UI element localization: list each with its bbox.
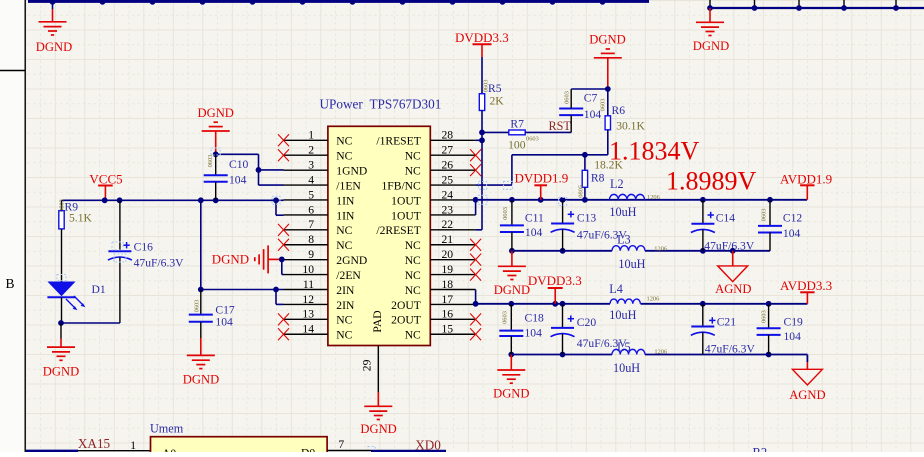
- svg-text:16: 16: [442, 308, 454, 321]
- junction R7 tee: [479, 130, 485, 136]
- svg-text:C18: C18: [525, 312, 545, 325]
- capacitor C7: [559, 91, 601, 121]
- resistor R5: [479, 80, 504, 111]
- svg-text:29: 29: [361, 359, 374, 371]
- svg-text:D0: D0: [301, 447, 315, 453]
- capacitor C21 (polarized): [691, 304, 756, 356]
- wire to pin3 1GND: [259, 169, 284, 171]
- svg-text:30.1K: 30.1K: [616, 120, 645, 133]
- svg-text:10uH: 10uH: [609, 308, 636, 322]
- svg-text:C10: C10: [229, 158, 249, 171]
- svg-text:19: 19: [442, 263, 454, 276]
- net label RST: [549, 119, 572, 133]
- svg-text:AGND: AGND: [715, 282, 751, 296]
- svg-text:DGND: DGND: [212, 253, 249, 267]
- annotation 1.1834V: [609, 137, 700, 166]
- svg-text:/2EN: /2EN: [336, 269, 361, 282]
- wire pin23 riser: [475, 200, 477, 215]
- junction FB node: [582, 152, 588, 158]
- junction rail4 C18: [508, 352, 514, 358]
- wire C10 bottom lead: [215, 182, 217, 201]
- op-amp U1 TPS767D301 body: [328, 126, 430, 345]
- svg-text:100: 100: [508, 139, 526, 152]
- svg-text:B: B: [6, 276, 15, 291]
- junction C16 branch: [117, 197, 123, 203]
- svg-text:10: 10: [302, 263, 314, 276]
- svg-text:25: 25: [442, 173, 454, 186]
- capacitor C12: [758, 200, 802, 251]
- junction rail3 C21: [700, 301, 706, 307]
- junction rail3 C18: [508, 301, 514, 307]
- wire pad ground stem: [377, 392, 379, 406]
- wire C17 top lead: [200, 290, 202, 315]
- capacitor C20 (polarized): [551, 304, 628, 355]
- power port AVDD3.3: [780, 278, 832, 304]
- svg-text:C7: C7: [584, 91, 598, 104]
- svg-text:11: 11: [303, 278, 314, 291]
- svg-text:NC: NC: [336, 239, 352, 252]
- svg-text:UPower: UPower: [320, 97, 364, 112]
- pin numbers U1 right: [442, 129, 454, 336]
- pin label A0: [162, 447, 176, 457]
- pin numbers U1 left: [302, 129, 314, 336]
- svg-text:18: 18: [442, 278, 454, 291]
- junctions on top bus: [50, 0, 606, 5]
- junction rail3 C19: [766, 301, 772, 307]
- junction 2IN branch: [273, 287, 279, 293]
- junction rail1 R8: [582, 197, 588, 203]
- inductor L2: [609, 177, 659, 219]
- no-connect X marks right pins: [470, 149, 481, 340]
- junction rail1 C14: [700, 197, 706, 203]
- svg-text:NC: NC: [405, 239, 421, 252]
- svg-text:C12: C12: [783, 212, 803, 225]
- svg-text:NC: NC: [336, 329, 352, 342]
- svg-text:NC: NC: [336, 314, 352, 327]
- svg-text:C13: C13: [577, 212, 597, 225]
- wire C16 bottom lead: [61, 257, 120, 323]
- svg-text:21: 21: [442, 233, 454, 246]
- junction 1GND branch: [256, 167, 262, 173]
- svg-text:AVDD1.9: AVDD1.9: [780, 171, 832, 186]
- svg-text:NC: NC: [336, 135, 352, 148]
- svg-text:/1EN: /1EN: [336, 179, 361, 192]
- net label DGND at 2GND (left ground glyph): [212, 245, 282, 273]
- svg-text:C14: C14: [716, 212, 736, 225]
- capacitor C14 (polarized): [691, 200, 755, 253]
- wire R8 bottom lead: [584, 187, 586, 200]
- svg-text:0603: 0603: [194, 300, 201, 313]
- junction rail4 C20: [560, 352, 566, 358]
- junction 1IN branch: [273, 197, 279, 203]
- wire DVDD3.3 rail: [476, 303, 808, 305]
- svg-text:14: 14: [302, 323, 314, 336]
- svg-text:AVDD3.3: AVDD3.3: [780, 278, 832, 293]
- wire C7 bottom lead: [570, 115, 572, 132]
- pin label D0: [301, 447, 315, 457]
- svg-text:L2: L2: [610, 177, 624, 191]
- svg-text:DGND: DGND: [494, 283, 530, 297]
- svg-text:C16: C16: [134, 240, 154, 253]
- svg-text:0603: 0603: [502, 207, 509, 220]
- ground DGND under U1 pad: [360, 406, 396, 436]
- resistor R7: [508, 118, 539, 152]
- svg-text:2: 2: [308, 144, 314, 157]
- svg-text:10uH: 10uH: [618, 257, 645, 271]
- svg-text:L3: L3: [617, 232, 631, 246]
- wire C17 column: [200, 200, 202, 289]
- ground DGND above R6 (inverted): [589, 33, 625, 89]
- svg-text:A0: A0: [162, 447, 176, 452]
- svg-text:0603: 0603: [600, 99, 607, 112]
- wire FB to pin25: [476, 155, 585, 185]
- capacitor C13 (polarized): [551, 200, 628, 251]
- wire R5 to node: [481, 111, 483, 141]
- svg-text:R6: R6: [612, 104, 626, 117]
- pin label PAD: [371, 310, 384, 332]
- ERC markers (light blue): [57, 148, 567, 453]
- svg-text:C11: C11: [525, 212, 544, 225]
- svg-text:1IN: 1IN: [336, 209, 355, 222]
- memory IC Umem body: [151, 437, 328, 455]
- IC designator Umem: [150, 422, 184, 436]
- svg-text:/1RESET: /1RESET: [376, 135, 420, 148]
- svg-text:9: 9: [308, 248, 314, 261]
- resistor R8: [577, 155, 623, 198]
- svg-text:0603: 0603: [760, 310, 767, 323]
- junction rail4 C19: [766, 352, 772, 358]
- svg-text:1: 1: [130, 439, 136, 452]
- svg-text:1206: 1206: [654, 348, 667, 355]
- svg-text:3: 3: [308, 159, 314, 172]
- svg-text:R5: R5: [488, 82, 502, 95]
- junctions on top-right bus: [707, 5, 899, 11]
- svg-text:104: 104: [215, 316, 233, 329]
- svg-text:10uH: 10uH: [613, 361, 640, 375]
- svg-text:1FB/NC: 1FB/NC: [381, 179, 421, 192]
- pin labels U1 left: [336, 135, 367, 342]
- junction VCC5-stem: [102, 197, 108, 203]
- wire node to pin28: [476, 139, 482, 141]
- power port DVDD3.3 lower: [528, 273, 582, 304]
- power port AVDD1.9: [780, 171, 832, 200]
- inductor L3: [612, 232, 667, 271]
- wire DGND to 1GND: [216, 154, 259, 170]
- svg-text:1IN: 1IN: [336, 194, 355, 207]
- capacitor C17: [189, 300, 235, 329]
- junction rail2 C11: [509, 248, 515, 254]
- svg-text:XA15: XA15: [78, 436, 111, 451]
- capacitor C10: [204, 155, 249, 187]
- ground AGND upper: [715, 251, 751, 296]
- svg-text:L5: L5: [617, 340, 631, 354]
- junction rail1 DVDD1.9 stem: [538, 197, 544, 203]
- svg-text:DGND: DGND: [589, 33, 625, 47]
- svg-text:DVDD3.3: DVDD3.3: [455, 30, 509, 45]
- svg-text:DVDD1.9: DVDD1.9: [515, 170, 569, 185]
- pins U1 left stubs: [284, 140, 328, 334]
- svg-text:0603: 0603: [563, 91, 570, 104]
- svg-text:28: 28: [442, 129, 454, 142]
- svg-text:R8: R8: [591, 171, 605, 184]
- svg-text:1206: 1206: [654, 245, 667, 252]
- wire stem to DGND top-right: [709, 8, 711, 22]
- svg-text:0805: 0805: [577, 185, 584, 198]
- net label XD0: [415, 437, 441, 452]
- capacitor C11: [500, 200, 544, 251]
- svg-text:24: 24: [442, 188, 454, 201]
- wire C7 top to DGND node: [571, 89, 608, 109]
- wire R9 to D1: [61, 229, 63, 282]
- junction rail2 AGND: [730, 248, 736, 254]
- wire R6 bottom to FB node: [585, 130, 608, 155]
- wire XD0 net: [371, 450, 446, 453]
- svg-text:0603: 0603: [207, 155, 214, 168]
- svg-text:104: 104: [525, 226, 543, 239]
- wire XA15 net: [26, 450, 78, 453]
- ground DGND under rail2: [494, 266, 530, 297]
- svg-text:2GND: 2GND: [336, 254, 367, 267]
- svg-text:1OUT: 1OUT: [391, 194, 421, 207]
- wire C16 top lead: [119, 200, 121, 251]
- wire rail2 ground tie: [512, 250, 770, 252]
- svg-text:DGND: DGND: [43, 365, 79, 379]
- wire elbow to pin6 1IN: [276, 200, 284, 215]
- svg-text:1206: 1206: [647, 194, 660, 201]
- wire top-right horizontal bus: [710, 7, 924, 9]
- svg-text:1206: 1206: [647, 296, 660, 303]
- svg-text:NC: NC: [405, 254, 421, 267]
- svg-text:1: 1: [308, 129, 314, 142]
- inductor L5: [612, 340, 667, 375]
- svg-text:2IN: 2IN: [336, 284, 355, 297]
- capacitor C19: [757, 304, 803, 355]
- svg-text:VCC5: VCC5: [89, 171, 122, 186]
- wire pin18 elbow: [475, 290, 477, 304]
- svg-text:23: 23: [442, 203, 454, 216]
- svg-text:0603: 0603: [761, 209, 768, 222]
- svg-text:NC: NC: [405, 329, 421, 342]
- junction rail2 C13: [560, 248, 566, 254]
- wire C17 bottom lead: [200, 322, 202, 356]
- svg-text:R7: R7: [510, 118, 524, 131]
- IC title UPower TPS767D301: [320, 97, 442, 112]
- svg-text:RST: RST: [549, 119, 572, 133]
- junction DGND-C7-R6: [605, 86, 611, 92]
- svg-text:DGND: DGND: [198, 106, 234, 120]
- svg-text:8: 8: [308, 233, 314, 246]
- wire elbow to pin10 /2EN: [282, 259, 284, 274]
- svg-text:10uH: 10uH: [609, 205, 636, 219]
- pins U1 right stubs: [430, 140, 475, 334]
- wire to pin5 1IN: [276, 199, 284, 201]
- svg-text:NC: NC: [405, 165, 421, 178]
- svg-text:C20: C20: [577, 316, 597, 329]
- svg-text:DGND: DGND: [693, 39, 729, 53]
- junction rail2 C14: [700, 248, 706, 254]
- junction C17 branch: [198, 197, 204, 203]
- power port DVDD3.3 top: [455, 30, 509, 57]
- pin stubs rising from top-right bus: [710, 0, 896, 8]
- power port VCC5: [89, 171, 122, 200]
- svg-text:DGND: DGND: [36, 40, 72, 54]
- svg-text:AGND: AGND: [789, 388, 825, 402]
- svg-text:47uF/6.3V: 47uF/6.3V: [704, 240, 755, 253]
- wire R9 top lead: [61, 200, 63, 210]
- svg-text:D1: D1: [92, 283, 106, 296]
- ground DGND top-left: [36, 22, 72, 54]
- svg-text:PAD: PAD: [371, 310, 384, 332]
- wire R6 top lead: [607, 89, 609, 116]
- ground DGND top-right: [693, 22, 729, 53]
- svg-text:15: 15: [442, 323, 454, 336]
- wire rail4 DGND stem: [510, 355, 512, 371]
- pin Umem 1: [78, 439, 151, 452]
- wire D1 to ground: [60, 323, 62, 347]
- ground AGND lower: [789, 355, 825, 403]
- svg-text:2K: 2K: [490, 95, 505, 108]
- svg-text:7: 7: [308, 218, 314, 231]
- junction rail1 C12: [767, 197, 773, 203]
- svg-text:1OUT: 1OUT: [391, 209, 421, 222]
- svg-text:104: 104: [229, 174, 247, 187]
- svg-text:1GND: 1GND: [336, 165, 367, 178]
- junction DGND-C10: [213, 151, 219, 157]
- svg-text:TPS767D301: TPS767D301: [370, 97, 442, 112]
- wire DVDD1.9 rail: [476, 199, 807, 201]
- junction rail1 C13: [560, 197, 566, 203]
- svg-text:C19: C19: [784, 316, 804, 329]
- wire DVDD3.3 to R5: [481, 57, 483, 94]
- svg-text:104: 104: [525, 327, 543, 340]
- svg-text:XD0: XD0: [415, 437, 441, 452]
- svg-text:NC: NC: [336, 224, 352, 237]
- svg-text:13: 13: [302, 308, 314, 321]
- svg-text:2IN: 2IN: [336, 299, 355, 312]
- svg-text:22: 22: [442, 218, 454, 231]
- junction rail3 DVDD3.3 stem: [552, 301, 558, 307]
- power port DVDD1.9: [515, 170, 569, 200]
- svg-text:47uF/6.3V: 47uF/6.3V: [705, 343, 756, 356]
- wire D1 cathode down: [61, 297, 63, 323]
- svg-text:0603: 0603: [526, 135, 539, 142]
- junction rail1 pin24: [473, 197, 479, 203]
- annotation 1.8989V: [666, 167, 757, 196]
- svg-text:20: 20: [442, 248, 454, 261]
- svg-text:NC: NC: [336, 150, 352, 163]
- svg-text:R2: R2: [753, 446, 768, 453]
- wire elbow to pin12 2IN: [276, 290, 284, 305]
- svg-text:1.8989V: 1.8989V: [666, 167, 757, 196]
- svg-text:/2RESET: /2RESET: [376, 224, 420, 237]
- wire VCC5 rail: [62, 199, 277, 201]
- wire C17 column to 2IN: [201, 289, 284, 291]
- svg-text:47uF/6.3V: 47uF/6.3V: [134, 256, 185, 269]
- wire stem to DGND top-left: [52, 1, 54, 22]
- ground DGND under C17: [183, 355, 219, 386]
- net label XA15: [78, 436, 111, 451]
- junction rail3 C20: [560, 301, 566, 307]
- wire top horizontal bus DVDD: [28, 0, 649, 3]
- resistor R6: [600, 99, 646, 133]
- svg-text:DGND: DGND: [183, 373, 219, 387]
- pin Umem 7: [327, 438, 371, 451]
- svg-text:104: 104: [784, 330, 802, 343]
- svg-text:NC: NC: [405, 150, 421, 163]
- svg-text:L4: L4: [609, 282, 623, 296]
- ground DGND above C10 (inverted): [198, 106, 234, 154]
- part R2 designator (cut at edge): [753, 446, 768, 457]
- zone label B: [6, 276, 15, 291]
- svg-text:27: 27: [442, 144, 454, 157]
- pin labels U1 right: [376, 135, 421, 342]
- capacitor C16: [108, 240, 184, 269]
- svg-text:5: 5: [308, 188, 314, 201]
- ground DGND under D1: [43, 347, 79, 378]
- wire reset vertical to pin22: [476, 140, 482, 230]
- LED D1: [47, 282, 105, 311]
- svg-text:6: 6: [308, 203, 314, 216]
- svg-text:104: 104: [783, 227, 801, 240]
- wire node to R7: [482, 131, 509, 133]
- junction 2GND branch: [279, 257, 285, 263]
- svg-text:0603: 0603: [501, 311, 508, 324]
- svg-text:NC: NC: [405, 269, 421, 282]
- svg-text:4: 4: [308, 173, 314, 186]
- junction C17 top: [198, 287, 204, 293]
- junction rail1 C11: [509, 197, 515, 203]
- svg-text:2OUT: 2OUT: [391, 299, 421, 312]
- wire elbow to pin4 /1EN: [259, 170, 284, 185]
- capacitor C18: [499, 304, 544, 355]
- svg-text:Umem: Umem: [150, 422, 184, 436]
- resistor R9: [58, 199, 92, 229]
- wire rail2 DGND stem: [511, 251, 513, 266]
- svg-text:DVDD3.3: DVDD3.3: [528, 273, 582, 288]
- junction pin28 node: [479, 137, 485, 143]
- ground DGND under rail4: [493, 370, 529, 401]
- svg-text:NC: NC: [405, 284, 421, 297]
- wire C10 top lead: [215, 154, 217, 175]
- svg-text:26: 26: [442, 159, 454, 172]
- svg-text:7: 7: [338, 438, 344, 451]
- junction D1-C16: [58, 320, 64, 326]
- svg-text:5.1K: 5.1K: [69, 212, 92, 225]
- svg-text:DGND: DGND: [360, 422, 396, 436]
- svg-text:C21: C21: [717, 316, 737, 329]
- svg-text:1.1834V: 1.1834V: [609, 137, 700, 166]
- wire R7 to RST / C7: [525, 131, 571, 133]
- svg-text:2OUT: 2OUT: [391, 314, 421, 327]
- svg-text:17: 17: [442, 293, 454, 306]
- no-connect X marks left pins: [278, 134, 289, 340]
- sheet border frame line: [0, 0, 25, 452]
- inductor L4: [609, 282, 659, 322]
- wire rail4 ground tie: [511, 354, 807, 356]
- junction C10 branch: [213, 197, 219, 203]
- svg-text:DGND: DGND: [493, 387, 529, 401]
- junction rail3 pin17: [473, 301, 479, 307]
- svg-text:12: 12: [302, 293, 314, 306]
- pin 29 PAD stub: [361, 346, 379, 393]
